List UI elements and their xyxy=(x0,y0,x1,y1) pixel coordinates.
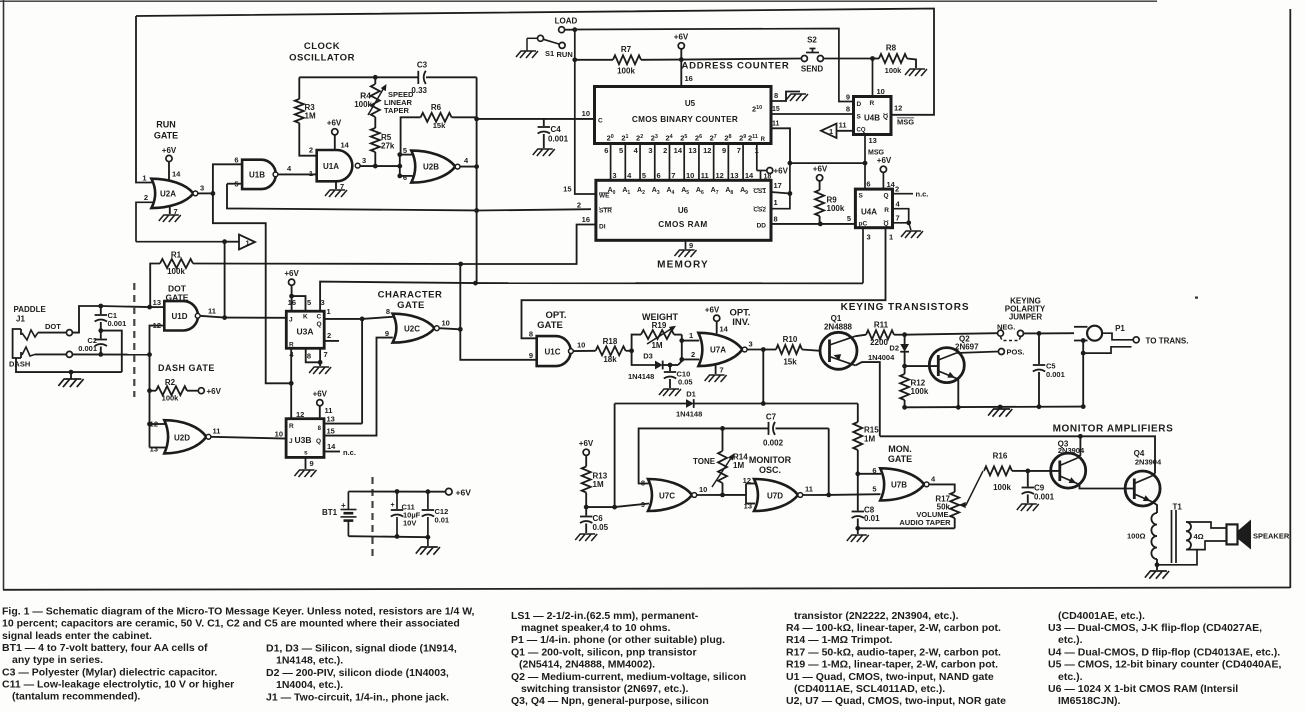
wire U1A output xyxy=(360,165,399,167)
svg-text:R17 — 50-kΩ, audio-taper, 2-W,: R17 — 50-kΩ, audio-taper, 2-W, carbon po… xyxy=(786,646,1001,658)
wire NEG to C5/P1 xyxy=(1024,332,1040,334)
svg-text:2: 2 xyxy=(895,185,899,194)
figure border right edge xyxy=(1289,9,1291,588)
NOR gate U7B xyxy=(880,468,924,500)
svg-text:6: 6 xyxy=(604,146,608,155)
svg-text:100k: 100k xyxy=(167,267,185,276)
svg-text:1M: 1M xyxy=(733,461,744,470)
resistor R5 xyxy=(374,117,376,128)
speaker LS1 xyxy=(1227,524,1238,544)
svg-text:+6V: +6V xyxy=(674,33,689,42)
wire R7 line xyxy=(575,59,613,61)
svg-text:1N4004, etc.).: 1N4004, etc.). xyxy=(276,679,343,691)
wire Q3 collector xyxy=(1078,436,1081,458)
resistor R2 xyxy=(149,355,151,448)
svg-text:1: 1 xyxy=(829,127,833,136)
wire Q3 emitter to Q4 base xyxy=(1078,484,1135,489)
svg-text:CQ: CQ xyxy=(857,128,866,134)
wire U3A Q to U3B clock xyxy=(361,319,363,424)
capacitor C3 xyxy=(417,71,419,84)
resistor R15 xyxy=(857,404,859,423)
svg-text:n.c.: n.c. xyxy=(343,448,356,457)
svg-text:14: 14 xyxy=(341,141,350,150)
svg-text:R1: R1 xyxy=(171,251,182,260)
svg-text:GATE: GATE xyxy=(154,131,178,141)
svg-text:AUDIO TAPER: AUDIO TAPER xyxy=(899,518,951,527)
svg-text:R4 — 100-kΩ, linear-taper, 2-W: R4 — 100-kΩ, linear-taper, 2-W, carbon p… xyxy=(786,622,1001,634)
svg-text:5: 5 xyxy=(847,214,851,223)
svg-text:magnet speaker,4 to 10 ohms.: magnet speaker,4 to 10 ohms. xyxy=(521,622,670,634)
svg-text:2: 2 xyxy=(663,146,667,155)
plug P1 xyxy=(1087,326,1102,341)
svg-text:C: C xyxy=(598,118,603,125)
svg-text:KEYING TRANSISTORS: KEYING TRANSISTORS xyxy=(841,302,970,313)
wire battery bottom rail xyxy=(348,536,428,537)
svg-text:JUMPER: JUMPER xyxy=(1009,313,1043,322)
svg-text:15: 15 xyxy=(327,427,335,436)
wire dot line xyxy=(38,332,66,334)
svg-text:CMOS RAM: CMOS RAM xyxy=(658,220,707,229)
svg-text:T1: T1 xyxy=(1173,503,1183,512)
svg-text:D3: D3 xyxy=(643,352,653,361)
svg-text:13: 13 xyxy=(688,146,696,155)
svg-text:11: 11 xyxy=(701,171,709,180)
NOR gate U2C xyxy=(393,314,435,343)
ground C4 xyxy=(533,149,555,156)
flip-flop U4A xyxy=(855,189,892,228)
svg-text:1: 1 xyxy=(889,233,893,242)
svg-text:MON.: MON. xyxy=(888,444,912,454)
NOR gate U2A xyxy=(151,179,193,208)
svg-text:R: R xyxy=(761,137,766,143)
svg-text:U4B: U4B xyxy=(864,114,880,123)
NOR gate U2B xyxy=(411,151,455,183)
svg-text:13: 13 xyxy=(730,171,738,180)
resistor R6 xyxy=(401,117,421,154)
svg-text:6: 6 xyxy=(234,156,238,165)
NOR gate U2D xyxy=(164,420,206,453)
resistor R18 xyxy=(573,350,595,352)
svg-text:12: 12 xyxy=(703,146,711,155)
resistor R16 xyxy=(984,466,1012,475)
svg-text:CLOCK: CLOCK xyxy=(304,41,340,52)
svg-text:0.05: 0.05 xyxy=(593,523,609,532)
svg-text:R10: R10 xyxy=(783,335,798,344)
svg-text:U6: U6 xyxy=(678,206,689,215)
svg-text:S: S xyxy=(859,193,864,200)
svg-text:1N4148: 1N4148 xyxy=(676,410,702,419)
wire address line A0 xyxy=(610,144,612,181)
svg-text:LOAD: LOAD xyxy=(555,17,578,26)
svg-text:2: 2 xyxy=(144,193,148,202)
svg-text:n.c.: n.c. xyxy=(916,190,929,199)
svg-text:0.33: 0.33 xyxy=(411,86,427,95)
svg-text:3: 3 xyxy=(321,298,325,307)
wire STR feedback line xyxy=(227,184,477,211)
svg-text:1: 1 xyxy=(142,174,146,183)
capacitor C7 xyxy=(768,422,770,435)
ground U5 pin8 xyxy=(771,92,800,102)
svg-text:8: 8 xyxy=(774,91,778,100)
svg-text:U1B: U1B xyxy=(249,171,265,180)
svg-text:U4A: U4A xyxy=(861,208,877,217)
svg-text:MSG: MSG xyxy=(897,118,914,127)
svg-text:S2: S2 xyxy=(807,36,817,45)
svg-text:D1: D1 xyxy=(686,390,696,399)
svg-text:P1: P1 xyxy=(1115,324,1125,333)
svg-text:R8: R8 xyxy=(886,44,897,53)
svg-text:27k: 27k xyxy=(381,142,395,151)
svg-text:17: 17 xyxy=(774,181,782,190)
svg-text:RUN: RUN xyxy=(156,120,176,130)
jumper POS contact xyxy=(998,349,1004,355)
wire U5 pin1 to +6V xyxy=(756,144,758,171)
IC U6 CMOS RAM xyxy=(596,180,771,240)
svg-text:+: + xyxy=(391,502,395,509)
svg-text:R: R xyxy=(870,100,875,107)
svg-text:STR: STR xyxy=(599,208,612,215)
svg-text:transistor (2N2222, 2N3904, et: transistor (2N2222, 2N3904, etc.). xyxy=(794,610,959,622)
svg-text:Q: Q xyxy=(316,438,321,445)
svg-text:0.001: 0.001 xyxy=(78,344,97,353)
ground U2A pin7 xyxy=(169,207,171,215)
svg-text:10: 10 xyxy=(442,319,450,328)
svg-text:MEMORY: MEMORY xyxy=(657,260,709,271)
+6V terminal U5 pin1/U6 pin18 xyxy=(757,170,767,172)
svg-text:15: 15 xyxy=(563,185,571,194)
svg-text:0.01: 0.01 xyxy=(435,516,450,525)
svg-text:DASH: DASH xyxy=(9,360,30,369)
svg-text:R16: R16 xyxy=(993,452,1008,461)
wire C7 right to U7D out xyxy=(828,428,830,495)
svg-text:3: 3 xyxy=(648,146,652,155)
NAND gate U1C xyxy=(537,336,571,366)
wire C7 feedback xyxy=(639,428,723,483)
wire U4A pin3 clock xyxy=(862,228,864,284)
resistor R13 xyxy=(582,467,591,493)
svg-text:U5: U5 xyxy=(685,99,696,108)
svg-text:1N4004: 1N4004 xyxy=(868,353,895,362)
svg-text:D2: D2 xyxy=(889,344,899,353)
wire left feedback to U2A pin1 xyxy=(136,16,153,183)
svg-text:J: J xyxy=(289,317,293,324)
svg-text:0.05: 0.05 xyxy=(678,378,693,387)
svg-text:C11 — Low-leakage electrolytic: C11 — Low-leakage electrolytic, 10 V or … xyxy=(2,679,234,691)
svg-text:9: 9 xyxy=(846,93,850,102)
svg-text:C3 — Polyester (Mylar) dielect: C3 — Polyester (Mylar) dielectric capaci… xyxy=(2,666,217,678)
svg-text:+6V: +6V xyxy=(456,488,472,498)
svg-text:11: 11 xyxy=(772,121,780,128)
svg-text:CS2: CS2 xyxy=(753,207,766,214)
wire U7A output node xyxy=(747,349,763,351)
wire U2D inputs xyxy=(150,423,166,425)
stray scan mark xyxy=(1195,297,1198,299)
svg-text:INV.: INV. xyxy=(732,317,750,328)
svg-text:U5 — CMOS, 12-bit binary count: U5 — CMOS, 12-bit binary counter (CD4040… xyxy=(1048,659,1281,671)
svg-text:9: 9 xyxy=(385,329,389,338)
wire U2A pin2 feedback xyxy=(136,202,153,241)
svg-text:1: 1 xyxy=(327,307,331,316)
svg-text:0.001: 0.001 xyxy=(1034,493,1055,502)
svg-text:7: 7 xyxy=(324,350,328,359)
svg-text:13: 13 xyxy=(153,298,161,307)
svg-text:16: 16 xyxy=(685,74,693,83)
svg-text:11: 11 xyxy=(839,121,847,130)
svg-text:13: 13 xyxy=(150,445,158,454)
svg-text:14: 14 xyxy=(327,442,336,451)
svg-text:PADDLE: PADDLE xyxy=(14,305,47,314)
svg-text:9: 9 xyxy=(722,146,726,155)
svg-text:8: 8 xyxy=(386,307,390,316)
svg-text:100k: 100k xyxy=(827,204,845,213)
svg-text:U7A: U7A xyxy=(710,346,726,355)
svg-text:Q1 — 200-volt, silicon, pnp tr: Q1 — 200-volt, silicon, pnp transistor xyxy=(511,646,697,658)
wire U7B pin6 xyxy=(858,473,881,475)
svg-text:DOT: DOT xyxy=(45,322,61,331)
svg-text:13: 13 xyxy=(869,136,877,145)
resistor R12 xyxy=(904,366,906,374)
wire S2 junction to U4B pin10 xyxy=(872,59,874,97)
svg-text:switching transistor (2N697, e: switching transistor (2N697, etc.). xyxy=(521,683,689,695)
svg-text:13: 13 xyxy=(327,415,335,424)
svg-text:Q: Q xyxy=(883,221,888,228)
wire U1D output xyxy=(200,316,225,318)
svg-text:DI: DI xyxy=(599,224,606,231)
svg-text:U2D: U2D xyxy=(174,434,190,443)
wire MSG feedback top xyxy=(136,9,934,115)
svg-text:100k: 100k xyxy=(993,483,1011,492)
svg-text:10: 10 xyxy=(686,171,694,180)
svg-text:U2, U7 — Quad, CMOS, two-input: U2, U7 — Quad, CMOS, two-input, NOR gate xyxy=(786,695,1006,707)
wire address line A6 xyxy=(698,144,700,181)
R17 wiper xyxy=(959,502,966,508)
wire U2A out to reset line xyxy=(213,193,291,383)
dashed cabinet line battery xyxy=(371,477,373,557)
wire Q1 emitter to monitor rail xyxy=(855,362,880,436)
wire to NEG jumper xyxy=(905,333,998,335)
flip-flop U3B xyxy=(286,419,324,458)
svg-text:1M: 1M xyxy=(864,435,875,444)
svg-text:1N4148: 1N4148 xyxy=(628,372,654,381)
svg-text:1: 1 xyxy=(755,146,759,155)
dash contact spring xyxy=(22,347,35,356)
svg-text:U7B: U7B xyxy=(891,481,907,490)
wire DD to U4A pin5 xyxy=(771,223,855,225)
figure border bottom edge xyxy=(3,588,1290,590)
svg-text:R18: R18 xyxy=(603,337,618,346)
wire U7D inputs xyxy=(745,484,747,504)
svg-text:D: D xyxy=(857,101,862,108)
svg-text:P1 — 1/4-in. phone (or other s: P1 — 1/4-in. phone (or other suitable) p… xyxy=(511,634,725,646)
svg-text:+6V: +6V xyxy=(284,269,299,278)
svg-text:1: 1 xyxy=(689,331,693,340)
svg-text:R4: R4 xyxy=(360,91,371,101)
svg-text:2N3904: 2N3904 xyxy=(1135,458,1162,467)
svg-text:14: 14 xyxy=(720,325,729,334)
wire U3B clock pin13 xyxy=(324,423,362,425)
svg-text:DD: DD xyxy=(757,223,767,230)
svg-text:s: s xyxy=(304,450,308,457)
svg-text:+6V: +6V xyxy=(877,156,892,165)
svg-text:9: 9 xyxy=(689,241,693,250)
NAND gate U1B xyxy=(242,160,276,189)
wire T1 secondary to speaker xyxy=(1186,522,1227,528)
wire J1 sleeve ground rail xyxy=(16,358,122,372)
flip-flop U4B xyxy=(854,97,892,135)
svg-text:0.001: 0.001 xyxy=(108,319,127,328)
svg-text:3: 3 xyxy=(200,184,204,193)
svg-text:9: 9 xyxy=(641,500,645,509)
svg-text:12: 12 xyxy=(894,104,902,113)
svg-text:1: 1 xyxy=(246,239,250,248)
svg-text:100k: 100k xyxy=(911,387,929,396)
svg-text:10: 10 xyxy=(577,341,585,350)
wire U5 pin11 down to CS rail xyxy=(771,128,790,163)
ground R8 xyxy=(905,69,927,76)
svg-text:3: 3 xyxy=(749,340,753,349)
svg-text:16: 16 xyxy=(582,215,590,224)
wire CS1 xyxy=(771,192,790,194)
svg-text:8: 8 xyxy=(307,352,311,361)
svg-text:5: 5 xyxy=(403,146,407,155)
wire P1 sleeve down xyxy=(1082,353,1084,407)
svg-text:2200: 2200 xyxy=(870,338,888,347)
svg-text:8: 8 xyxy=(529,330,533,339)
svg-text:OSCILLATOR: OSCILLATOR xyxy=(289,53,355,64)
wire U2C output node xyxy=(439,328,460,329)
svg-text:+6V: +6V xyxy=(813,165,828,174)
svg-text:7: 7 xyxy=(737,146,741,155)
wire U3A clock from clock line xyxy=(320,282,475,312)
svg-text:C9: C9 xyxy=(1034,484,1045,493)
resistor R11 xyxy=(866,330,894,339)
svg-text:8: 8 xyxy=(846,105,850,114)
svg-text:6: 6 xyxy=(657,171,661,180)
svg-text:4Ω: 4Ω xyxy=(1194,532,1204,541)
capacitor C8 xyxy=(857,474,859,511)
svg-text:2N4888: 2N4888 xyxy=(824,323,853,332)
wire Q2 base xyxy=(905,365,939,367)
svg-text:+6V: +6V xyxy=(705,306,720,315)
wire R13/C6 node to U7C pin9 xyxy=(586,506,614,508)
svg-text:3: 3 xyxy=(867,233,871,242)
diode D3 xyxy=(632,351,655,365)
wire U4A pin2 n.c. xyxy=(893,193,914,195)
wire Q2 emitter xyxy=(956,378,958,407)
wire address line A1 xyxy=(624,144,626,181)
svg-text:C6: C6 xyxy=(593,514,604,523)
svg-text:7: 7 xyxy=(720,366,724,375)
wire U2C out to U1C pin9 xyxy=(460,329,536,360)
wire +6V rail battery xyxy=(348,491,445,493)
wire U4A pin1 to U1C pin8 xyxy=(522,228,886,339)
svg-text:U7D: U7D xyxy=(767,492,783,501)
capacitor C9 xyxy=(1027,471,1029,487)
svg-text:7: 7 xyxy=(896,214,900,223)
ground U7A pin7 xyxy=(715,366,717,375)
svg-text:6: 6 xyxy=(403,173,407,182)
svg-text:10 percent; capacitors are cer: 10 percent; capacitors are ceramic, 50 V… xyxy=(2,618,460,630)
svg-text:Q: Q xyxy=(883,114,888,121)
svg-text:S: S xyxy=(857,114,862,121)
svg-text:+6V: +6V xyxy=(162,146,177,155)
svg-text:11: 11 xyxy=(208,307,216,316)
wire LOAD to WE xyxy=(575,30,596,194)
ground battery xyxy=(427,537,429,546)
svg-text:8: 8 xyxy=(774,215,778,224)
svg-text:14: 14 xyxy=(172,170,181,179)
svg-text:MONITOR: MONITOR xyxy=(749,455,792,465)
svg-text:LS1 — 2-1/2-in.(62.5 mm), perm: LS1 — 2-1/2-in.(62.5 mm), permanent- xyxy=(511,610,699,622)
svg-text:U7C: U7C xyxy=(659,492,675,501)
svg-text:Fig. 1 — Schematic diagram of: Fig. 1 — Schematic diagram of the Micro-… xyxy=(2,606,475,618)
wire U2D output xyxy=(211,437,286,439)
wire U4B pin13 MSG down xyxy=(864,135,866,190)
wire U4A pin4 to pin7 xyxy=(893,209,909,223)
svg-text:2: 2 xyxy=(577,201,581,210)
wire U2A output node xyxy=(198,192,213,194)
svg-text:CHARACTER: CHARACTER xyxy=(378,290,443,301)
wire U3A pin2 stub xyxy=(324,340,339,342)
node marker triangle 1 left xyxy=(225,241,239,243)
resistor R8 xyxy=(879,54,907,63)
svg-text:2: 2 xyxy=(309,146,313,155)
svg-text:U2C: U2C xyxy=(404,325,420,334)
svg-text:10: 10 xyxy=(877,87,885,96)
svg-text:GATE: GATE xyxy=(537,320,563,331)
wire U7D output to U7B pin5 xyxy=(803,494,829,496)
svg-text:12: 12 xyxy=(715,171,723,180)
NOR gate U7A xyxy=(698,333,742,366)
ground U3B pin9 xyxy=(305,457,307,469)
IC U5 CMOS binary counter xyxy=(595,87,772,144)
svg-text:GATE: GATE xyxy=(397,300,425,311)
svg-text:Q2 — Medium-current, medium-vo: Q2 — Medium-current, medium-voltage, sil… xyxy=(511,671,746,683)
svg-text:any type in series.: any type in series. xyxy=(12,654,103,666)
svg-text:U1 — Quad, CMOS, two-input, NA: U1 — Quad, CMOS, two-input, NAND gate xyxy=(786,671,994,683)
svg-text:C3: C3 xyxy=(417,61,428,70)
figure border top scan edge xyxy=(0,0,1157,2)
svg-text:Q3, Q4 — Npn, general-purpose,: Q3, Q4 — Npn, general-purpose, silicon xyxy=(511,695,709,707)
ground C6 xyxy=(575,534,597,541)
svg-text:15k: 15k xyxy=(783,358,797,367)
svg-text:C: C xyxy=(317,314,322,321)
svg-text:J: J xyxy=(289,438,293,445)
svg-text:+6V: +6V xyxy=(207,387,222,396)
wire U2B inputs xyxy=(399,155,401,176)
svg-text:GATE: GATE xyxy=(888,454,912,464)
svg-text:R6: R6 xyxy=(431,103,442,112)
capacitor C2 xyxy=(100,331,102,339)
svg-text:5: 5 xyxy=(619,146,623,155)
svg-text:14: 14 xyxy=(674,146,683,155)
wire U6 pin18 xyxy=(760,171,762,181)
wire U1D pin12 xyxy=(150,326,165,355)
svg-text:BT1: BT1 xyxy=(322,508,338,517)
wire T1 primary bottom to ground xyxy=(1156,559,1158,565)
svg-text:TAPER: TAPER xyxy=(384,106,409,115)
svg-text:10V: 10V xyxy=(403,519,416,528)
transistor Q3 xyxy=(1051,453,1086,488)
svg-text:0.01: 0.01 xyxy=(864,514,880,523)
svg-text:R14 — 1-MΩ Trimpot.: R14 — 1-MΩ Trimpot. xyxy=(786,634,893,646)
diode D1 xyxy=(686,399,694,408)
wire U1B pin5 xyxy=(227,183,242,185)
resistor R9 xyxy=(815,190,824,216)
svg-text:U4 — Dual-CMOS, D flip-flop (C: U4 — Dual-CMOS, D flip-flop (CD4013AE, e… xyxy=(1048,646,1280,658)
svg-text:3: 3 xyxy=(612,171,616,180)
svg-text:5: 5 xyxy=(307,298,311,307)
